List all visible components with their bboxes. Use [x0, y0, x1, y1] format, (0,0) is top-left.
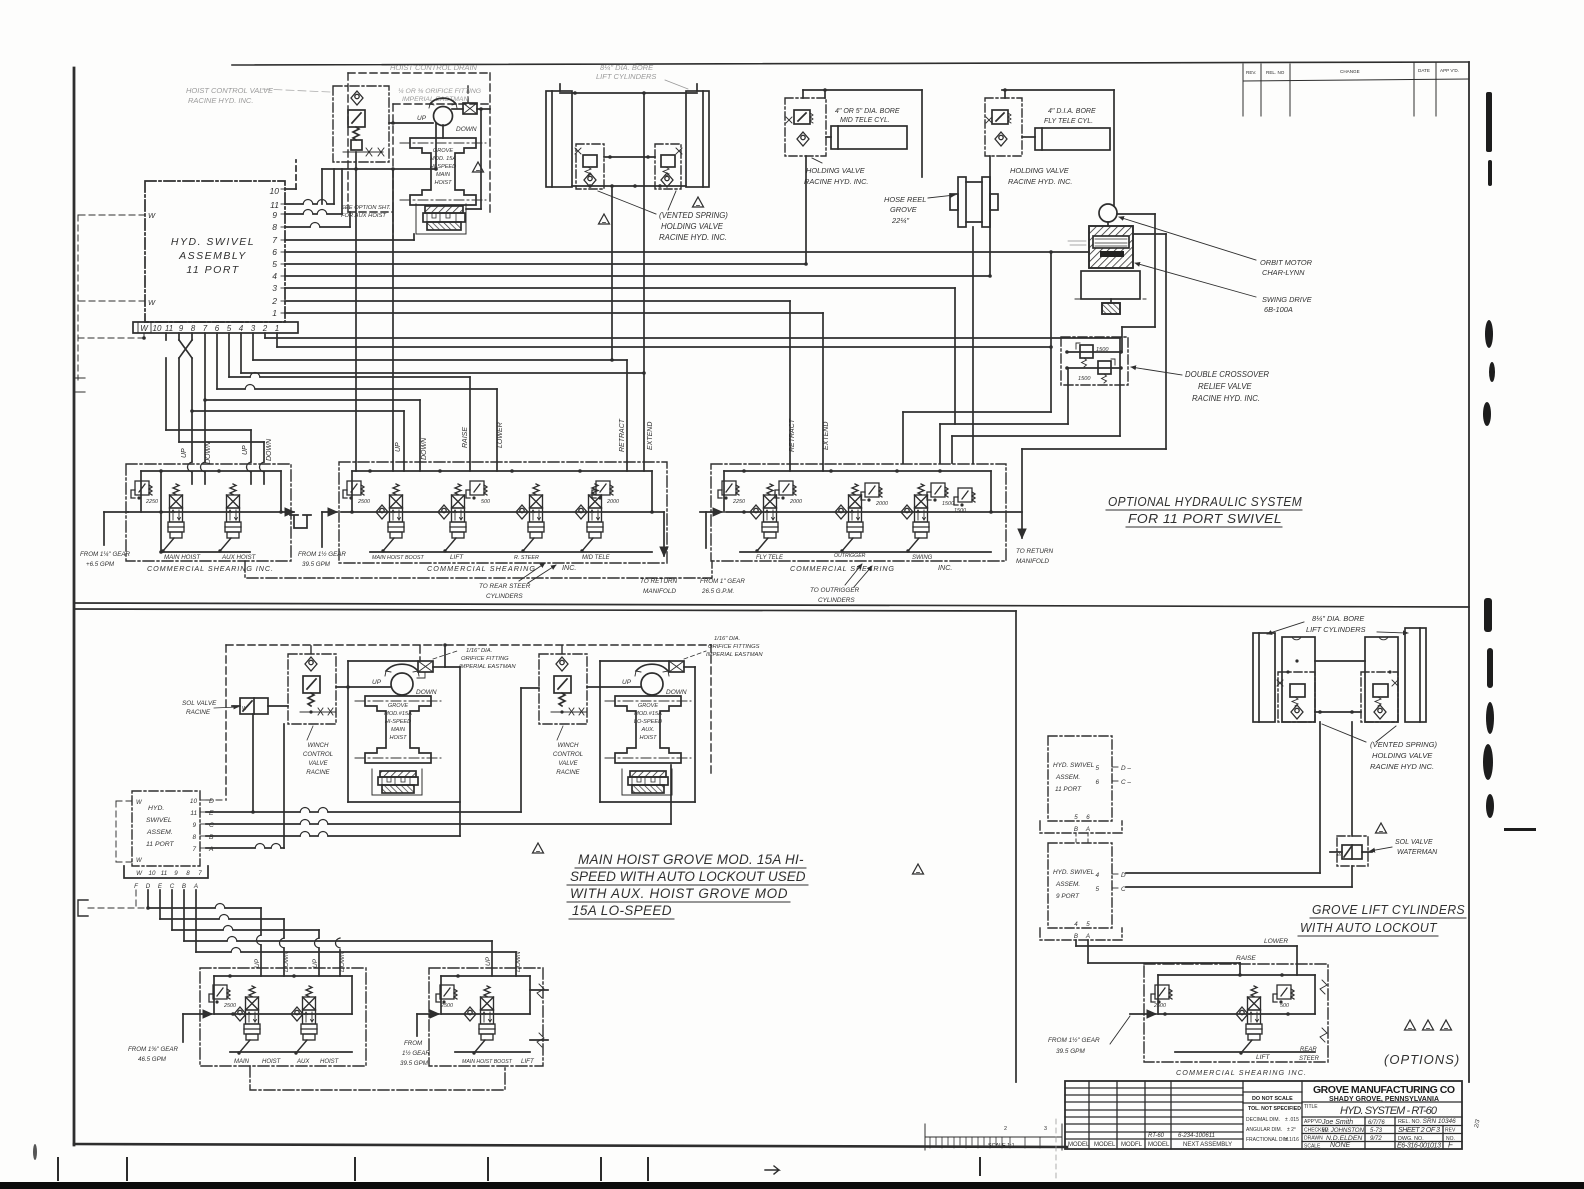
svg-text:6-234-100611: 6-234-100611: [1178, 1133, 1215, 1139]
swivel title text: [171, 236, 255, 276]
svg-text:39.5 GPM: 39.5 GPM: [302, 561, 331, 568]
svg-text:± 2°: ± 2°: [1287, 1127, 1296, 1133]
wire mid tele top: [803, 88, 922, 98]
winch control valve label 1: [303, 726, 334, 776]
winch motor circle 1: [385, 664, 419, 695]
orifice fitting 1: [417, 645, 460, 678]
rotated labels bottom left: [254, 951, 522, 972]
wire port A with hoses: [206, 724, 284, 848]
svg-text:DOWN: DOWN: [266, 438, 273, 461]
wire port C with hoses: [206, 820, 671, 825]
svg-text:GROVE: GROVE: [638, 703, 658, 709]
wire C riser: [670, 765, 672, 824]
swivel2 bottom numbers: [134, 870, 202, 890]
bank A envelope: [141, 469, 281, 554]
svg-text:W. JOHNSTON: W. JOHNSTON: [1322, 1127, 1365, 1134]
svg-text:11 PORT: 11 PORT: [146, 841, 175, 848]
winch motor circle 2: [635, 664, 669, 695]
border right: [1468, 62, 1470, 1082]
vented spring note: [659, 211, 728, 242]
svg-text:MID TELE CYL.: MID TELE CYL.: [840, 117, 890, 124]
svg-text:LOWER: LOWER: [1264, 938, 1288, 945]
fold mark dashed: [1055, 1119, 1057, 1178]
supply line bank F: [1158, 1007, 1315, 1021]
svg-text:FRACTIONAL DIM.: FRACTIONAL DIM.: [1246, 1137, 1289, 1143]
svg-text:5: 5: [1086, 921, 1090, 928]
fly tele cyl label: [1044, 108, 1096, 125]
svg-text:11 PORT: 11 PORT: [1055, 786, 1082, 793]
supply line bank E: [441, 1007, 530, 1021]
bank B labels: [372, 554, 611, 561]
svg-text:10: 10: [270, 186, 280, 196]
svg-text:SWING: SWING: [912, 555, 933, 561]
winch drum 1 (GROVE MOD 15A HI-SPEED MAIN HOIST): [355, 696, 441, 763]
svg-text:CONTROL: CONTROL: [553, 751, 584, 758]
svg-text:10: 10: [149, 870, 156, 877]
svg-text:REV: REV: [1445, 1128, 1456, 1134]
mid tele cylinder: [826, 126, 907, 149]
svg-text:RACINE HYD. INC.: RACINE HYD. INC.: [1192, 394, 1260, 403]
wire port B with hoses: [206, 832, 460, 837]
svg-text:DOWN: DOWN: [515, 951, 522, 972]
svg-text:Joe Smith: Joe Smith: [1321, 1119, 1353, 1126]
fly tele cylinder assembly: [985, 88, 1114, 278]
svg-text:LIFT CYLINDERS: LIFT CYLINDERS: [1306, 625, 1366, 634]
svg-text:HOIST: HOIST: [389, 735, 407, 741]
svg-text:A: A: [1085, 826, 1090, 833]
bank D envelope: [214, 974, 352, 1052]
svg-text:1: 1: [275, 324, 279, 333]
relief valve 2500 (bank E): [436, 985, 457, 1009]
orbit motor and swing drive: [1068, 204, 1313, 314]
svg-text:COMMERCIAL SHEARING: COMMERCIAL SHEARING: [427, 564, 535, 573]
svg-text:AUX: AUX: [296, 1059, 310, 1065]
svg-text:MAIN: MAIN: [436, 172, 451, 178]
wire orifice to drum right: [466, 107, 490, 209]
svg-text:STEER: STEER: [1299, 1056, 1320, 1062]
fly tele cylinder: [1022, 128, 1110, 150]
svg-text:8¼" DIA. BORE: 8¼" DIA. BORE: [600, 63, 654, 72]
svg-text:1½ GEAR: 1½ GEAR: [402, 1050, 430, 1057]
winch control valve racine 1: [288, 654, 336, 724]
svg-text:1500: 1500: [954, 508, 966, 514]
svg-text:7: 7: [198, 870, 202, 877]
svg-text:GROVE LIFT CYLINDERS: GROVE LIFT CYLINDERS: [1312, 903, 1465, 917]
svg-text:CYLINDERS: CYLINDERS: [486, 593, 523, 600]
svg-text:RAISE: RAISE: [1236, 955, 1256, 962]
svg-text:7: 7: [203, 324, 208, 333]
supply line bank A: [128, 510, 294, 514]
svg-text:2: 2: [1004, 1126, 1007, 1132]
svg-text:+6.5 GPM: +6.5 GPM: [86, 561, 115, 568]
svg-text:OUTRIGGER: OUTRIGGER: [834, 553, 866, 559]
svg-text:RETRACT: RETRACT: [789, 418, 796, 452]
sol valve racine: [232, 698, 288, 714]
drain dashed boundary: [226, 645, 711, 800]
wire between holding valves bottom: [1315, 710, 1361, 714]
valve spool AUX HOIST: [218, 484, 241, 553]
svg-text:3: 3: [1044, 1126, 1047, 1132]
svg-text:MOD. 15A: MOD. 15A: [430, 156, 456, 162]
envelope wires assembly 1: [346, 661, 460, 836]
svg-text:TOL. NOT SPECIFIED: TOL. NOT SPECIFIED: [1248, 1106, 1301, 1112]
winch brake 2: [622, 769, 672, 795]
svg-text:AUX HOIST: AUX HOIST: [221, 554, 257, 561]
svg-text:GROVE MANUFACTURING CO: GROVE MANUFACTURING CO: [1313, 1084, 1455, 1096]
wire port6b fan: [217, 333, 497, 471]
svg-text:MAIN HOIST BOOST: MAIN HOIST BOOST: [462, 1059, 513, 1065]
supply line bank D: [214, 1007, 352, 1021]
svg-text:ORIFICE FITTING: ORIFICE FITTING: [461, 656, 509, 662]
svg-text:APP'VD: APP'VD: [1304, 1119, 1322, 1125]
drain U symbol: [290, 515, 311, 528]
svg-text:HOIST: HOIST: [320, 1059, 340, 1065]
svg-text:A: A: [193, 883, 198, 890]
svg-text:11: 11: [190, 810, 197, 817]
svg-text:N.D.ELDEN: N.D.ELDEN: [1326, 1135, 1362, 1142]
wire port4b fan (extend mid): [241, 333, 646, 471]
hoist control valve racine (dash-dot box): [333, 86, 389, 169]
svg-text:5: 5: [1095, 765, 1099, 772]
svg-text:ASSEM.: ASSEM.: [1055, 881, 1080, 888]
svg-text:HYD. SYSTEM - RT-60: HYD. SYSTEM - RT-60: [1340, 1105, 1438, 1117]
svg-text:MODEL: MODEL: [1094, 1142, 1116, 1148]
bottom fan wire B: [184, 890, 492, 976]
svg-text:22¼": 22¼": [891, 216, 909, 225]
svg-text:COMMERCIAL SHEARING INC.: COMMERCIAL SHEARING INC.: [147, 564, 273, 573]
svg-text:MOD.#15A: MOD.#15A: [384, 711, 412, 717]
svg-text:B: B: [182, 883, 186, 890]
svg-text:9: 9: [272, 210, 277, 220]
bank E labels: [462, 1058, 535, 1065]
wire valve to motor: [389, 121, 433, 125]
lift cylinder left: [546, 84, 572, 187]
svg-text:B: B: [1074, 826, 1078, 833]
bottom tick marks: [58, 1158, 980, 1180]
svg-text:5: 5: [1095, 886, 1099, 893]
hyd swivel assembly 11 port (top): [133, 181, 298, 333]
svg-text:C –: C –: [1121, 779, 1131, 786]
svg-text:4: 4: [272, 271, 277, 281]
orbit motor label: [1260, 258, 1313, 277]
W port labels on box: [148, 211, 156, 307]
svg-text:2250: 2250: [732, 499, 745, 505]
svg-text:A: A: [1085, 933, 1090, 940]
leader to swing drive: [1135, 263, 1256, 297]
svg-text:C: C: [170, 883, 175, 890]
warning triangle (sol valve): [1376, 823, 1387, 833]
svg-text:DWG. NO.: DWG. NO.: [1398, 1136, 1424, 1142]
svg-text:± 1/16: ± 1/16: [1285, 1137, 1299, 1143]
svg-text:APP V'D.: APP V'D.: [1440, 68, 1459, 73]
scale ruler: [925, 1124, 1062, 1150]
warning triangle 2 (left): [599, 214, 610, 224]
svg-text:FROM 1½ GEAR: FROM 1½ GEAR: [298, 551, 346, 558]
svg-text:6/7/76: 6/7/76: [1368, 1120, 1385, 1126]
svg-text:8: 8: [192, 834, 196, 841]
svg-text:DOWN: DOWN: [205, 441, 212, 464]
mid tele cylinder assembly: [785, 88, 922, 266]
svg-text:SCALE: SCALE: [1304, 1144, 1321, 1150]
wire port1b fan long: [277, 333, 1053, 349]
svg-text:DOWN: DOWN: [456, 126, 477, 133]
svg-text:TO OUTRIGGER: TO OUTRIGGER: [810, 587, 860, 594]
svg-text:8: 8: [186, 870, 190, 877]
svg-text:2000: 2000: [789, 499, 802, 505]
border bottom: [74, 1144, 1067, 1147]
wire port7 to brake: [285, 234, 414, 240]
hoist brake assembly: [416, 204, 466, 234]
svg-text:DECIMAL DIM.: DECIMAL DIM.: [1246, 1117, 1280, 1123]
svg-text:SHEET 2 OF 3: SHEET 2 OF 3: [1398, 1127, 1440, 1134]
valve spool AUX HOIST (bank D): [294, 986, 317, 1055]
svg-text:C: C: [209, 822, 214, 829]
orifice fitting: [452, 103, 477, 114]
svg-text:MAIN HOIST GROVE MOD. 15A: MAIN HOIST GROVE MOD. 15A HI-: [578, 852, 804, 867]
holding valve mid tele: [785, 98, 826, 156]
svg-text:HOIST CONTROL VALVE: HOIST CONTROL VALVE: [186, 86, 274, 95]
wire swivel bottom port 7: [201, 333, 207, 484]
svg-text:HOSE REEL: HOSE REEL: [884, 195, 926, 204]
wire between holding valves: [604, 155, 655, 159]
svg-text:9: 9: [192, 822, 196, 829]
bank C envelope: [724, 469, 991, 552]
svg-text:1500: 1500: [942, 501, 954, 507]
wire sol valve drain: [251, 714, 255, 814]
bottom fan wire C: [172, 890, 319, 976]
sol valve waterman label: [1370, 839, 1438, 856]
valve spool MAIN HOIST: [161, 484, 184, 553]
wire port5b fan: [229, 333, 470, 471]
svg-text:1500: 1500: [1096, 347, 1109, 353]
bank E envelope: [441, 974, 530, 1052]
top middle: lift cylinders: [546, 63, 728, 242]
wire bus port4 (to fly tele): [285, 275, 990, 277]
svg-text:(VENTED SPRING): (VENTED SPRING): [1370, 740, 1438, 749]
svg-text:E: E: [209, 810, 214, 817]
svg-text:REL. NO: REL. NO: [1266, 70, 1285, 75]
svg-text:7: 7: [192, 846, 196, 853]
relief valve 2000: [775, 481, 802, 505]
mid tele cyl label: [835, 108, 900, 124]
relief valve 500: [466, 481, 490, 505]
svg-text:COMMERCIAL SHEARING INC.: COMMERCIAL SHEARING INC.: [1176, 1068, 1306, 1077]
svg-text:2000: 2000: [875, 501, 888, 507]
svg-text:D: D: [146, 883, 151, 890]
sol valve label: [182, 700, 238, 716]
svg-text:7: 7: [272, 235, 277, 245]
svg-text:UP: UP: [181, 448, 188, 458]
svg-text:6: 6: [272, 247, 277, 257]
winch brake 1: [372, 769, 422, 795]
svg-text:11 PORT: 11 PORT: [186, 264, 239, 276]
bottom black bar: [0, 1182, 1584, 1189]
svg-text:SWING DRIVE: SWING DRIVE: [1262, 295, 1312, 304]
relief valve 2250: [131, 481, 158, 505]
svg-text:LOWER: LOWER: [497, 422, 504, 448]
svg-text:RACINE HYD. INC.: RACINE HYD. INC.: [1008, 177, 1072, 186]
valve spool FLY TELE: [755, 484, 778, 553]
svg-text:2500: 2500: [357, 499, 370, 505]
svg-text:HYD. SWIVEL: HYD. SWIVEL: [1053, 762, 1095, 769]
svg-text:8: 8: [272, 222, 277, 232]
leader to crossover: [1131, 367, 1182, 375]
wire port10 dashed: [285, 160, 296, 189]
wire W dashed to left: [78, 215, 145, 380]
svg-text:¼ OR ⅜ ORIFICE FITTING: ¼ OR ⅜ ORIFICE FITTING: [398, 88, 481, 95]
orifice label 1: [459, 648, 516, 670]
warning triangle 2 (right): [693, 197, 704, 207]
winch drum 2 (GROVE MOD 15A LO-SPEED AUX HOIST): [605, 696, 691, 763]
bank B dash-dot box: [339, 462, 667, 563]
svg-text:TO RETURN: TO RETURN: [640, 578, 678, 585]
faint hoist control valve label: [186, 86, 330, 105]
winch control valve racine 2: [539, 654, 587, 724]
svg-text:HOLDING VALVE: HOLDING VALVE: [806, 166, 865, 175]
bank F labels: [1256, 1047, 1320, 1062]
valve spool R STEER: [521, 484, 544, 553]
bottom fan wire D: [148, 890, 261, 976]
svg-text:4" D.I.A. BORE: 4" D.I.A. BORE: [1048, 108, 1096, 115]
wire cyl to D port: [1319, 722, 1321, 873]
b-pack tiny marks: [1068, 241, 1086, 245]
wire fly tele feed down: [988, 156, 992, 278]
border left: [73, 68, 76, 1145]
warning triangle (bottom left): [533, 843, 544, 853]
svg-text:DOWN: DOWN: [666, 689, 687, 696]
valve spool MAIN HOIST BOOST (bank E): [472, 986, 495, 1055]
svg-text:LIFT: LIFT: [1256, 1054, 1271, 1061]
wire hose reel top: [921, 90, 923, 177]
svg-text:RACINE: RACINE: [556, 769, 580, 776]
svg-text:MODFL: MODFL: [1121, 1142, 1143, 1148]
svg-text:MAIN HOIST: MAIN HOIST: [164, 554, 201, 561]
svg-text:WITH AUX. HOIST GROVE MOD: WITH AUX. HOIST GROVE MOD: [570, 886, 788, 901]
svg-text:46.5 GPM: 46.5 GPM: [138, 1056, 167, 1063]
relief valve 2500 (bank F): [1151, 985, 1172, 1009]
svg-text:1: 1: [272, 308, 277, 318]
lift cylinders label: [1267, 614, 1408, 634]
svg-text:1/16" DIA.: 1/16" DIA.: [714, 636, 740, 642]
svg-text:UP: UP: [485, 956, 492, 966]
swing drive gearbox: [1075, 271, 1146, 314]
main hoist description text: [570, 852, 806, 918]
bank D dash-dot box: [200, 968, 366, 1066]
wire C to sol valve: [1126, 886, 1352, 888]
svg-text:EXTEND: EXTEND: [647, 422, 654, 450]
wire bus port3 (to crossover left): [285, 288, 1068, 463]
bank E dash-dot box: [429, 968, 543, 1066]
wire cyl to sol valve: [1351, 722, 1353, 887]
svg-text:W: W: [1337, 852, 1342, 857]
svg-text:MANIFOLD: MANIFOLD: [643, 588, 676, 595]
svg-text:D: D: [209, 798, 214, 805]
wire bus port1 (fly tele extend): [285, 313, 823, 471]
svg-text:GROVE: GROVE: [388, 703, 408, 709]
svg-text:FOR 11 PORT SWIVEL: FOR 11 PORT SWIVEL: [1128, 512, 1282, 526]
svg-text:DO NOT SCALE: DO NOT SCALE: [1252, 1096, 1293, 1102]
wire mid tele feed down: [804, 156, 808, 266]
return manifold line C: [991, 511, 1022, 513]
svg-text:A: A: [208, 846, 214, 853]
svg-text:TO RETURN: TO RETURN: [1016, 548, 1054, 555]
wire between cylinder bodies top: [1315, 660, 1365, 662]
holding valve dash box left: [1277, 659, 1315, 722]
swivel3 bottom numbers: [1074, 814, 1090, 833]
crossover relief label: [1185, 370, 1269, 403]
hyd swivel assem 9 port: [1040, 843, 1122, 940]
svg-text:MANIFOLD: MANIFOLD: [1016, 558, 1049, 565]
svg-text:DOWN: DOWN: [339, 951, 346, 972]
holding valve label: [1008, 166, 1072, 186]
svg-text:RELIEF VALVE: RELIEF VALVE: [1198, 382, 1252, 391]
svg-text:WINCH: WINCH: [308, 742, 329, 749]
ground bracket symbol: [74, 378, 85, 392]
bank A labels: [164, 554, 257, 561]
wire port11 with hose loops: [285, 169, 334, 204]
holding valve dash box right: [1361, 670, 1398, 722]
relief valve 500 (bank F): [1273, 985, 1294, 1009]
svg-text:ASSEM.: ASSEM.: [1055, 774, 1080, 781]
svg-text:COMMERCIAL SHEARING: COMMERCIAL SHEARING: [790, 564, 894, 573]
svg-text:HOLDING VALVE: HOLDING VALVE: [1010, 166, 1069, 175]
wire RAISE: [1088, 940, 1240, 975]
svg-text:REAR: REAR: [1300, 1047, 1317, 1053]
svg-text:UP: UP: [372, 679, 382, 686]
border top: [232, 62, 1469, 65]
wire bus port5 (to mid tele): [285, 263, 806, 265]
title block: [1065, 1081, 1462, 1149]
wire to swing supply: [1113, 90, 1115, 206]
optional hydraulic system title: [1106, 495, 1302, 527]
relief valve 2500: [343, 481, 370, 505]
svg-text:GROVE: GROVE: [890, 205, 917, 214]
right head: [1302, 1101, 1462, 1103]
svg-text:9: 9: [179, 324, 184, 333]
svg-text:5: 5: [272, 259, 277, 269]
svg-text:LO-SPEED: LO-SPEED: [634, 719, 662, 725]
F dashed drain to bracket: [88, 890, 148, 908]
svg-text:9: 9: [174, 870, 178, 877]
dash-dot drain connector: [245, 561, 712, 578]
relief valve 1500 lower: [1078, 359, 1115, 383]
wire swivel bottom port 8: [188, 333, 194, 484]
svg-text:DOUBLE CROSSOVER: DOUBLE CROSSOVER: [1185, 370, 1269, 379]
leader to orbit motor: [1119, 217, 1256, 260]
revision table: [1243, 63, 1469, 116]
svg-text:2500: 2500: [1153, 1003, 1166, 1009]
svg-text:500: 500: [481, 499, 490, 505]
relief valve 1500 upper: [1076, 343, 1109, 367]
bank F envelope: [1158, 973, 1315, 1052]
svg-text:ASSEMBLY: ASSEMBLY: [178, 250, 247, 262]
svg-text:6: 6: [215, 324, 220, 333]
svg-text:ANGULAR DIM.: ANGULAR DIM.: [1246, 1127, 1282, 1133]
left model table: [1088, 1081, 1090, 1149]
wire cylinder top bus: [560, 91, 697, 95]
svg-text:RACINE HYD INC.: RACINE HYD INC.: [1370, 762, 1434, 771]
grove lift cylinders title: [1298, 903, 1466, 936]
wire fly tele top: [1002, 88, 1114, 98]
wire port8 with hose loop: [285, 212, 350, 227]
svg-text:SPEED WITH AUTO LOCKOUT US: SPEED WITH AUTO LOCKOUT USED: [570, 869, 806, 884]
from gear supply F: [1110, 1014, 1156, 1044]
svg-text:± .015: ± .015: [1285, 1117, 1299, 1123]
svg-text:RACINE: RACINE: [186, 709, 211, 716]
wire cylinder drop left: [611, 186, 613, 360]
svg-text:4: 4: [239, 324, 244, 333]
supply line bank C: [726, 505, 993, 519]
